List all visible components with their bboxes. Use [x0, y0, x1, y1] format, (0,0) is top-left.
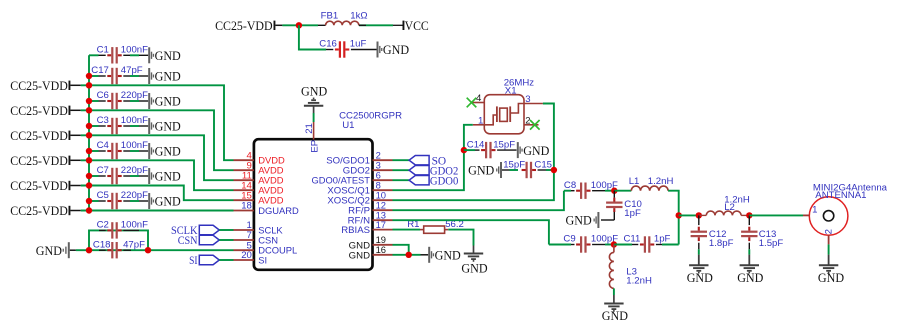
svg-text:GND: GND	[155, 144, 181, 159]
ground symbol at C16	[377, 42, 410, 58]
svg-text:C15: C15	[534, 160, 552, 171]
wire X1 pin 1 to C14 node	[464, 125, 473, 150]
svg-text:FB1: FB1	[321, 10, 339, 21]
port GDO2	[409, 165, 458, 177]
ground symbol at C13 (earth)	[737, 249, 763, 284]
X1 pin 1	[473, 116, 485, 127]
svg-text:16: 16	[376, 244, 386, 255]
inductor L3 1.2nH	[609, 245, 652, 296]
ground symbol at C17	[148, 68, 181, 84]
wire CC25-VDD row 1 to DVDD pin 4	[81, 85, 234, 160]
inductor L1 1.2nH	[614, 176, 673, 191]
svg-text:GND: GND	[155, 194, 181, 209]
wire CSN to pin 7	[219, 239, 233, 241]
svg-text:100nF: 100nF	[121, 220, 148, 231]
svg-text:1uF: 1uF	[350, 39, 367, 50]
svg-text:L1: L1	[629, 176, 640, 187]
U1 pin 7 (CSN)	[234, 230, 278, 245]
port SI	[189, 255, 219, 267]
ground symbol below R1 (earth)	[461, 246, 487, 276]
ground symbol at C14	[517, 142, 550, 158]
net CC25-VDD port (row 6)	[10, 203, 81, 218]
svg-text:CC25-VDD: CC25-VDD	[215, 18, 273, 33]
wire RF/P pin 12 to C8	[393, 191, 564, 211]
svg-text:X1: X1	[505, 86, 517, 97]
U1 pin 3 (GDO2)	[343, 159, 393, 176]
svg-text:47pF: 47pF	[123, 239, 145, 250]
svg-text:220pF: 220pF	[121, 165, 148, 176]
capacitor C1 100nF	[89, 44, 148, 63]
port SCLK	[171, 225, 219, 237]
capacitor C18 47pF	[93, 239, 145, 258]
wire GND pin 19	[393, 245, 409, 255]
junction C9/C11/L3	[611, 241, 617, 247]
svg-text:C5: C5	[97, 190, 109, 201]
wire CC25-VDD vertical rail	[88, 55, 90, 210]
capacitor C2 100nF	[97, 220, 149, 239]
svg-text:GND: GND	[435, 248, 461, 263]
wire C11 to antenna node	[678, 215, 680, 244]
svg-text:U1: U1	[342, 120, 354, 131]
svg-text:GND: GND	[602, 308, 628, 323]
svg-text:100nF: 100nF	[121, 44, 148, 55]
svg-text:DGUARD: DGUARD	[258, 205, 299, 216]
svg-text:GND: GND	[155, 94, 181, 109]
wire GND pin 16	[393, 254, 429, 256]
svg-text:C2: C2	[97, 220, 109, 231]
ground symbol at C15	[468, 162, 502, 178]
U1 pin 4 (DVDD)	[234, 150, 285, 165]
U1 pin 13 (RF/N)	[348, 209, 393, 226]
capacitor C10 1pF	[601, 191, 642, 220]
wire CC25-VDD row 3 to AVDD pin 11	[81, 135, 234, 180]
wire SCLK to pin 1	[219, 229, 233, 231]
U1 pin 10 (XOSC/Q2)	[327, 189, 392, 206]
svg-text:47pF: 47pF	[121, 65, 143, 76]
svg-text:GND: GND	[155, 169, 181, 184]
net CC25-VDD port (row 5)	[10, 178, 81, 193]
svg-text:18: 18	[241, 201, 252, 212]
U1 pin 20 (SI)	[234, 250, 268, 265]
junction at C12	[696, 212, 702, 218]
svg-text:CC25-VDD: CC25-VDD	[10, 78, 68, 93]
power net top: CC25-VDD port	[215, 18, 282, 33]
svg-text:220pF: 220pF	[121, 190, 148, 201]
capacitor C11 1pF	[614, 234, 679, 253]
svg-text:CC25-VDD: CC25-VDD	[10, 128, 68, 143]
capacitor C14 15pF	[464, 140, 517, 159]
ground symbol at C4	[148, 143, 181, 159]
net CC25-VDD port (row 2)	[10, 103, 81, 118]
U1 pin 21 (EP)	[304, 122, 320, 153]
IC U1 CC2500RGPR body	[254, 111, 402, 270]
ground symbol at C5	[148, 193, 181, 209]
capacitor C16 1uF	[319, 39, 376, 58]
capacitor C7 220pF	[89, 165, 148, 184]
port CSN	[178, 235, 220, 247]
svg-text:GND: GND	[687, 270, 713, 285]
capacitor C13 1.5pF	[741, 215, 783, 249]
ground net port GND (left, C18 row)	[36, 242, 70, 258]
svg-text:GND: GND	[155, 69, 181, 84]
svg-text:GND: GND	[155, 119, 181, 134]
ground symbol at C1	[148, 47, 181, 63]
svg-text:C16: C16	[319, 39, 337, 50]
ANTENNA1 pin 1	[803, 204, 817, 215]
svg-text:CSN: CSN	[178, 235, 198, 247]
svg-text:1.2nH: 1.2nH	[626, 276, 652, 287]
svg-text:C1: C1	[97, 44, 109, 55]
capacitor C15 15pF	[502, 160, 554, 179]
svg-text:1: 1	[812, 204, 817, 215]
svg-text:C6: C6	[97, 90, 109, 101]
wire RF node to L2	[679, 214, 700, 216]
svg-text:GND: GND	[461, 260, 487, 275]
capacitor C5 220pF	[89, 190, 148, 209]
svg-text:GND: GND	[383, 42, 409, 57]
junction RF node	[676, 212, 682, 218]
U1 pin 6 (GDO0/ATEST)	[312, 169, 393, 186]
svg-text:GDO0: GDO0	[430, 175, 459, 187]
svg-text:2: 2	[823, 229, 834, 234]
wire CC25-VDD row 4 to AVDD pin 14	[81, 160, 234, 190]
net CC25-VDD port (row 4)	[10, 153, 81, 168]
port SO	[409, 155, 446, 167]
ground symbol at C10	[566, 212, 600, 228]
capacitor C12 1.8pF	[691, 215, 734, 249]
junction at C15 node	[551, 167, 557, 173]
wire junction down to C16	[299, 25, 326, 49]
ground symbol at C6	[148, 93, 181, 109]
wire C2 branch	[89, 230, 148, 250]
U1 pin 17 (RBIAS)	[341, 219, 392, 236]
U1 pin 9 (AVDD)	[234, 160, 284, 175]
junction at C14 node	[461, 147, 467, 153]
svg-text:100nF: 100nF	[121, 140, 148, 151]
svg-text:C4: C4	[97, 140, 110, 151]
wire CC25-VDD to FB1	[282, 24, 393, 26]
svg-text:C3: C3	[97, 115, 109, 126]
U1 pin 16 (GND)	[349, 244, 393, 261]
svg-text:C17: C17	[91, 65, 109, 76]
svg-text:VCC: VCC	[405, 18, 429, 33]
svg-text:GND: GND	[36, 243, 62, 258]
svg-text:RBIAS: RBIAS	[341, 225, 370, 236]
svg-text:17: 17	[376, 219, 386, 230]
junction C8/L1/C10	[611, 188, 617, 194]
ground symbol at L3 (earth)	[602, 295, 628, 323]
wire RF/N pin 13 to C9	[393, 220, 549, 244]
U1 pin 5 (DCOUPL)	[234, 240, 298, 255]
svg-text:100nF: 100nF	[121, 115, 148, 126]
wire CC25-VDD row 2 to AVDD pin 9	[81, 110, 234, 170]
U1 pin 8 (XOSC/Q1)	[327, 179, 392, 196]
svg-text:1pF: 1pF	[654, 234, 671, 245]
wire L1 to antenna node	[672, 191, 679, 216]
svg-text:GND: GND	[155, 48, 181, 63]
U1 pin 15 (AVDD)	[234, 190, 284, 205]
junction at C13	[746, 212, 752, 218]
power net: VCC port	[393, 18, 429, 33]
wire pin 2 to SO port	[393, 159, 410, 161]
svg-text:CC25-VDD: CC25-VDD	[10, 153, 68, 168]
svg-text:20: 20	[241, 250, 252, 261]
capacitor C3 100nF	[89, 115, 148, 134]
inductor L2 1.2nH	[699, 194, 750, 215]
svg-text:C14: C14	[467, 140, 485, 151]
wire CC25-VDD row 6 to DGUARD pin 18	[81, 210, 234, 212]
ground symbol at pin 16	[428, 247, 461, 263]
wire R1 to ground	[448, 230, 473, 246]
ground symbol at EP (earth, up)	[301, 84, 327, 114]
port GDO0	[409, 175, 458, 187]
svg-text:CC25-VDD: CC25-VDD	[10, 203, 68, 218]
svg-text:CC25-VDD: CC25-VDD	[10, 103, 68, 118]
ANTENNA1 pin 2	[823, 229, 834, 244]
ground symbol at C3	[148, 118, 181, 134]
junction GND pins	[406, 252, 412, 258]
ground symbol at C7	[148, 168, 181, 184]
svg-text:GND: GND	[301, 84, 327, 99]
svg-text:GND: GND	[737, 270, 763, 285]
svg-text:C9: C9	[563, 234, 575, 245]
svg-text:1pF: 1pF	[624, 208, 641, 219]
svg-text:EP: EP	[309, 140, 320, 153]
wire XOSC/Q1 pin 8 to C14 node	[393, 150, 464, 190]
wire GND to DCOUPL pin 5	[70, 249, 234, 251]
svg-text:ANTENNA1: ANTENNA1	[815, 190, 866, 201]
junctions on DCOUPL wire	[86, 247, 151, 253]
capacitor C4 100nF	[89, 140, 148, 159]
svg-text:CC25-VDD: CC25-VDD	[10, 178, 68, 193]
svg-text:15pF: 15pF	[503, 160, 525, 171]
svg-text:3: 3	[525, 94, 530, 105]
wire X1 pin 3 to XOSC/Q2 pin 10	[393, 104, 554, 201]
U1 pin 18 (DGUARD)	[234, 201, 300, 216]
U1 pin 19 (GND)	[349, 234, 393, 251]
svg-text:L2: L2	[724, 202, 735, 213]
svg-text:SI: SI	[189, 255, 198, 267]
svg-text:21: 21	[304, 123, 315, 134]
svg-text:1: 1	[478, 116, 483, 127]
svg-text:C7: C7	[97, 165, 109, 176]
svg-text:GND: GND	[468, 163, 494, 178]
net CC25-VDD port (row 3)	[10, 128, 81, 143]
wire RBIAS pin 17 to R1	[393, 229, 421, 231]
wire SI to pin 20	[219, 259, 233, 261]
X1 pin 4 (no connect)	[467, 93, 485, 107]
svg-text:1.8pF: 1.8pF	[709, 238, 734, 249]
svg-text:2: 2	[525, 115, 530, 126]
capacitor C8 100pF	[564, 180, 618, 199]
capacitor C6 220pF	[89, 90, 148, 109]
ground symbol at antenna (earth)	[818, 255, 844, 285]
ferrite bead FB1 1k&#937;	[318, 10, 368, 25]
svg-text:C18: C18	[93, 239, 111, 250]
svg-text:220pF: 220pF	[121, 90, 148, 101]
crystal X1 26MHz	[484, 78, 534, 134]
X1 pin 3	[524, 94, 543, 105]
wire pin 6 to GDO0 port	[393, 179, 410, 181]
wire pin 3 to GDO2 port	[393, 169, 410, 171]
capacitor C9 100pF	[549, 234, 618, 253]
svg-text:4: 4	[476, 93, 482, 104]
wire to antenna	[749, 214, 803, 216]
U1 pin 11 (AVDD)	[234, 170, 284, 185]
net CC25-VDD port (row 1)	[10, 78, 81, 93]
U1 pin 14 (AVDD)	[234, 180, 284, 195]
svg-text:1.5pF: 1.5pF	[759, 238, 784, 249]
U1 pin 2 (SO/GDO1)	[326, 149, 392, 166]
svg-text:1kΩ: 1kΩ	[350, 10, 367, 21]
U1 pin 12 (RF/P)	[348, 199, 392, 216]
svg-text:GND: GND	[566, 213, 592, 228]
junction on CC25-VDD top rail	[296, 22, 302, 28]
svg-text:GND: GND	[818, 270, 844, 285]
wire antenna pin 2 to ground	[828, 244, 830, 254]
svg-text:1.2nH: 1.2nH	[648, 176, 674, 187]
capacitor C17 47pF	[89, 65, 148, 84]
svg-text:C11: C11	[624, 234, 641, 245]
svg-text:SI: SI	[258, 255, 267, 266]
wire CC25-VDD row 5 to AVDD pin 15	[81, 186, 234, 201]
U1 pin 1 (SCLK)	[234, 220, 284, 235]
resistor R1 56.2	[407, 219, 464, 234]
svg-text:C8: C8	[564, 180, 576, 191]
junction dots on CC25-VDD rail	[86, 73, 92, 214]
antenna ANTENNA1 MINI2G4Antenna	[809, 182, 887, 235]
wire EP to GND	[313, 113, 315, 122]
svg-text:GND: GND	[349, 250, 370, 261]
svg-text:GND: GND	[523, 143, 549, 158]
X1 pin 2 (no connect)	[524, 115, 540, 130]
svg-text:15pF: 15pF	[493, 140, 515, 151]
ground symbol at C12 (earth)	[687, 249, 713, 284]
